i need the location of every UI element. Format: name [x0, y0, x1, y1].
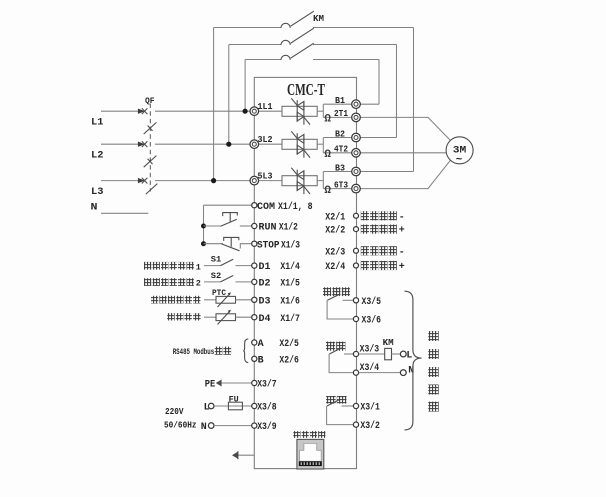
svg-text:CMC-T: CMC-T	[287, 80, 325, 99]
svg-text:RS485 Modbus: RS485 Modbus	[173, 347, 215, 357]
terminal X3/7	[252, 380, 257, 385]
svg-text:X2/3: X2/3	[325, 246, 345, 258]
svg-text:X3/5: X3/5	[362, 296, 382, 308]
brace relay outputs	[405, 291, 422, 430]
svg-text:~: ~	[456, 155, 463, 167]
junction dot RUN branch	[201, 224, 206, 229]
terminal 5L3	[250, 172, 273, 185]
svg-text:N: N	[201, 422, 207, 433]
wire COM bus	[204, 204, 255, 206]
svg-text:X2/4: X2/4	[325, 261, 345, 273]
svg-text:X3/2: X3/2	[360, 420, 380, 432]
terminal X2/4 analog output +	[354, 263, 359, 268]
wire L1 input	[101, 110, 139, 112]
svg-text:L3: L3	[91, 187, 104, 198]
svg-text:-: -	[399, 247, 405, 258]
terminal STOP	[252, 241, 257, 246]
breaker QF pole 1 contact cross	[142, 108, 148, 114]
thyristor module phase 1 (1L1-2T1)	[254, 98, 356, 124]
svg-text:X1/3: X1/3	[281, 239, 300, 251]
terminal B1	[335, 96, 360, 108]
terminal D3	[252, 297, 257, 302]
node L (bypass supply)	[400, 351, 406, 357]
svg-text:X3/7: X3/7	[257, 379, 277, 391]
pushbutton STOP (NC stop)	[204, 237, 255, 250]
shield ground symbol bottom	[232, 451, 254, 459]
svg-text:X1/5: X1/5	[280, 278, 300, 290]
svg-text:B3: B3	[335, 163, 345, 173]
junction dot on L2	[226, 142, 231, 147]
svg-text:-: -	[399, 212, 405, 223]
svg-text:1: 1	[196, 262, 201, 272]
breaker QF pole 2 contact cross	[142, 141, 148, 147]
contactor KM contact 1	[214, 11, 414, 28]
wire L1 to terminal 1L1	[155, 110, 254, 112]
breaker QF pole 3 blade	[146, 184, 158, 195]
svg-text:X1/7: X1/7	[280, 313, 300, 325]
contactor coil KM	[359, 338, 401, 360]
svg-text:RUN: RUN	[259, 223, 277, 234]
wire KM contact 2 drop to B2	[396, 45, 398, 138]
svg-text:L1: L1	[91, 117, 104, 128]
wire B1 to KM	[357, 103, 380, 105]
pushbutton RUN (NO start)	[204, 213, 255, 227]
wire L3 input	[101, 180, 139, 182]
svg-text:STOP: STOP	[257, 240, 280, 251]
node N (bypass supply)	[400, 370, 406, 376]
breaker QF pole 2 arrow	[138, 142, 145, 147]
wire L2 input	[101, 143, 139, 145]
bypass relay contact X3/3-X3/4	[329, 348, 356, 373]
svg-text:S1: S1	[211, 255, 222, 265]
svg-text:QF: QF	[145, 96, 155, 106]
svg-text:220V: 220V	[165, 407, 184, 417]
wire B3 to KM	[357, 171, 414, 173]
terminal X3/9	[252, 423, 257, 428]
brace for A/B pair	[243, 339, 248, 363]
svg-text:5L3: 5L3	[258, 172, 273, 182]
svg-text:2T1: 2T1	[334, 109, 349, 119]
svg-text:Ω: Ω	[324, 114, 331, 126]
svg-text:X1/1, 8: X1/1, 8	[278, 201, 313, 213]
PE symbol and wire	[205, 380, 255, 391]
terminal 6T3	[334, 180, 360, 193]
svg-text:L: L	[406, 351, 412, 362]
wire 2T1 to motor	[357, 117, 451, 140]
svg-text:2: 2	[196, 279, 201, 289]
svg-text:PE: PE	[205, 380, 216, 391]
fuse FU on L supply	[204, 394, 255, 413]
svg-text:3L2: 3L2	[258, 135, 273, 145]
label fault (CJK)	[326, 396, 336, 404]
supply N wire	[201, 422, 255, 433]
wire riser L2 to KM contact 2	[228, 45, 230, 145]
terminal B2	[335, 129, 360, 142]
svg-text:L2: L2	[91, 150, 104, 161]
svg-text:FU: FU	[229, 394, 239, 404]
terminal X3/6	[353, 316, 358, 321]
terminal 3L2	[250, 135, 273, 148]
label digital port 2 (CJK)	[144, 278, 151, 286]
fault relay contact X3/1-X3/2	[327, 400, 356, 425]
breaker QF pole 3 arrow	[138, 178, 145, 183]
svg-text:6T3: 6T3	[334, 180, 348, 190]
wire 6T3 to motor	[357, 160, 451, 188]
wire L2 to terminal 3L2	[155, 143, 254, 145]
terminal X2/1 analog input -	[354, 213, 359, 218]
thyristor module phase 3 (5L3-6T3)	[254, 168, 356, 194]
svg-text:X2/1: X2/1	[325, 211, 345, 223]
leakage sensor (D4)	[204, 310, 254, 325]
svg-text:X1/2: X1/2	[279, 222, 298, 234]
contactor KM contact 3	[245, 43, 379, 60]
wire KM contact 1 drop to B3	[413, 28, 415, 172]
svg-text:X3/6: X3/6	[362, 315, 382, 327]
svg-text:A: A	[258, 339, 264, 350]
svg-text:Ω: Ω	[324, 185, 331, 197]
wire KM contact 3 drop to B1	[378, 60, 380, 105]
wire 4T2 to motor	[357, 152, 447, 154]
wire N rail	[101, 212, 148, 214]
terminal X3/1	[353, 403, 358, 408]
thermistor PTC (motor temperature)	[204, 288, 254, 307]
svg-text:KM: KM	[313, 14, 324, 24]
svg-text:B: B	[258, 355, 264, 366]
terminal B	[252, 356, 257, 361]
terminal 2T1	[334, 109, 360, 122]
junction dot STOP branch	[201, 241, 206, 246]
label bypass (CJK)	[326, 342, 335, 351]
svg-text:Ω: Ω	[324, 149, 331, 161]
motor 3M	[446, 137, 473, 167]
terminal A	[252, 340, 257, 345]
terminal X3/5	[353, 298, 358, 303]
svg-text:B1: B1	[335, 96, 346, 106]
svg-text:D2: D2	[259, 279, 271, 290]
wire riser L1 to KM contact 3	[244, 60, 246, 112]
wire riser L3 to KM contact 1	[213, 28, 215, 181]
wire B2 to KM	[357, 137, 397, 139]
svg-text:50/60Hz: 50/60Hz	[164, 421, 197, 431]
label leakage detect (CJK)	[167, 313, 175, 320]
wire X3/4 to N	[359, 372, 401, 374]
wire L3 to terminal 5L3	[155, 180, 254, 182]
terminal X3/2	[353, 422, 358, 427]
terminal B3	[335, 163, 360, 176]
svg-text:X2/2: X2/2	[325, 225, 345, 237]
CMC-T soft starter enclosure box	[254, 77, 356, 468]
terminal RUN	[252, 223, 257, 228]
breaker QF linkage (dashed)	[149, 104, 151, 192]
breaker QF pole 3 contact cross	[142, 178, 148, 184]
svg-text:COM: COM	[257, 202, 275, 213]
terminal X3/4	[353, 370, 358, 375]
svg-text:1L1: 1L1	[258, 102, 274, 112]
switch S2 (digital input 2)	[204, 271, 254, 282]
external keypad label (CJK)	[293, 431, 300, 438]
terminal COM	[252, 203, 257, 208]
svg-text:KM: KM	[383, 338, 394, 348]
junction dot on L3	[211, 178, 216, 183]
terminal X2/2 analog input +	[354, 227, 359, 232]
svg-text:X3/8: X3/8	[257, 402, 277, 414]
external keypad RJ45 connector	[297, 439, 324, 469]
svg-text:X1/4: X1/4	[280, 261, 300, 273]
terminal X2/3 analog output -	[354, 248, 359, 253]
svg-text:D1: D1	[259, 262, 271, 273]
svg-text:+: +	[399, 262, 405, 273]
svg-text:+: +	[399, 226, 405, 237]
contactor KM contact 2	[229, 28, 397, 45]
terminal 1L1	[250, 102, 273, 115]
programmable relay contact X3/5-X3/6	[327, 294, 356, 319]
label motor temperature detect (CJK)	[151, 296, 158, 304]
bottom edge gap for keypad connector (mask)	[297, 467, 324, 471]
terminal D2	[252, 279, 257, 284]
breaker QF pole 1 blade	[144, 122, 157, 134]
label digital port 1 (CJK)	[144, 262, 151, 270]
label relay output (CJK vertical)	[428, 331, 438, 412]
terminal X3/3	[353, 351, 358, 356]
svg-text:S2: S2	[211, 271, 222, 281]
terminal X3/8	[252, 403, 257, 408]
svg-text:X3/9: X3/9	[257, 421, 277, 433]
terminal D4	[252, 315, 257, 320]
svg-text:4T2: 4T2	[334, 145, 348, 155]
svg-text:X1/6: X1/6	[280, 295, 300, 307]
terminal 4T2	[334, 145, 360, 158]
label programmable relay (CJK)	[323, 287, 331, 296]
switch S1 (digital input 1)	[204, 255, 254, 266]
svg-text:X2/5: X2/5	[279, 338, 299, 350]
breaker QF pole 2 blade	[144, 156, 157, 168]
terminal D1	[252, 263, 257, 268]
svg-text:N: N	[91, 203, 98, 214]
svg-text:D3: D3	[259, 296, 271, 307]
thyristor module phase 2 (3L2-4T2)	[254, 131, 356, 157]
svg-text:X2/6: X2/6	[279, 354, 299, 366]
svg-text:B2: B2	[335, 129, 345, 139]
junction dot on L1	[243, 109, 248, 114]
svg-text:X3/1: X3/1	[360, 402, 380, 414]
breaker QF pole 1 arrow	[138, 109, 145, 114]
svg-text:D4: D4	[259, 314, 271, 325]
